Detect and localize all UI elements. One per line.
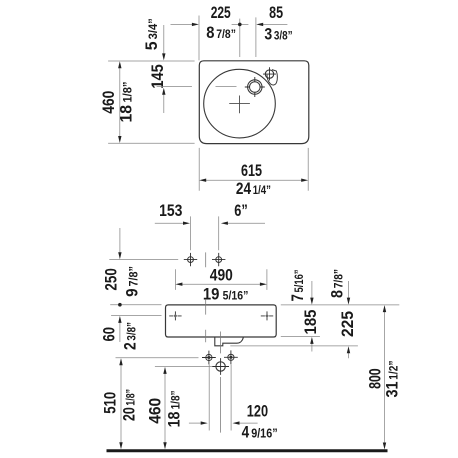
ext line anchors row left [111,315,161,317]
bolt left [206,354,212,360]
dim 153 ext lines [191,216,219,250]
dim 145 top arrow [163,25,165,54]
svg-text:75/16”: 75/16” [289,270,307,302]
dot 250/60 [118,303,122,307]
dim 145 bottom arrow [163,94,165,113]
mounting hole left [188,257,194,263]
dim 615 line [204,179,305,181]
svg-text:33/8”: 33/8” [264,26,292,44]
ext line holes row left [109,259,178,261]
dim 615 ext lines [199,148,308,191]
ext line left edge (dim 225) [198,16,200,61]
svg-text:510: 510 [101,392,119,414]
ext line bolts row left [116,357,199,359]
dim 460 line [119,66,121,139]
dim 225 bottom arrow right [348,352,350,358]
mounting hole right [216,257,222,263]
dim 120 right arrow [239,422,258,424]
bolt right [228,354,234,360]
slab outline front view [166,305,277,337]
basin outline top view [199,61,308,144]
dim 800 line [384,310,386,445]
dim 120 left arrow [189,422,202,424]
dim 490 ext lines [175,269,267,290]
svg-text:87/8”: 87/8” [206,24,236,42]
svg-text:87/8”: 87/8” [328,269,346,298]
ext line bowl center (dim 225/85) [239,19,241,57]
dim 460 ext lines [108,61,195,143]
dim 120 ext lines [209,365,231,431]
svg-text:85: 85 [269,4,283,22]
anchor right [261,311,273,320]
svg-text:53/4”: 53/4” [143,18,161,50]
svg-text:60: 60 [101,327,119,342]
svg-text:181/8”: 181/8” [118,82,136,123]
dim 510 line [120,364,122,445]
drain recess [215,337,244,346]
svg-text:241/4”: 241/4” [236,180,271,198]
svg-text:250: 250 [102,268,120,290]
floor line [107,449,388,452]
dim 6" right arrow [227,222,265,224]
svg-text:120: 120 [247,403,268,421]
dim 85 arrow [263,23,288,25]
ext line slab bottom right [281,336,320,338]
dim 250 arrow [119,228,121,253]
ext line drain bottom (225) [230,345,358,347]
svg-text:490: 490 [210,267,233,285]
ext line slab top left [110,304,161,306]
svg-text:185: 185 [302,310,320,335]
svg-text:153: 153 [159,202,182,220]
dim 225 arrow [171,23,193,25]
hole 2 [265,70,273,78]
svg-text:145: 145 [149,64,167,89]
svg-text:195/16”: 195/16” [203,285,249,303]
svg-text:49/16”: 49/16” [242,424,278,442]
dim 185 bottom arrow [311,343,313,352]
svg-text:225: 225 [211,4,231,22]
svg-text:311/2”: 311/2” [384,361,402,398]
ext line slab top right [281,304,400,306]
dim 460 line [164,372,166,445]
dim 225 stub and dot [232,23,249,25]
dim 225 top arrow right [348,281,350,299]
anchor left [169,311,181,320]
ext line drain row left [155,366,212,368]
svg-text:181/8”: 181/8” [166,390,184,427]
faucet hole U [248,80,262,94]
dim 153 left arrow [155,222,184,224]
svg-text:800: 800 [366,368,384,389]
tag shape [267,70,277,85]
ext line faucet center (dim 85) [255,17,257,57]
svg-text:201/8”: 201/8” [121,389,139,421]
drain centerline vertical [219,332,221,433]
dim 185 top arrow [311,281,313,299]
centerline bowl axis [205,252,207,342]
bowl center cross [229,96,250,114]
svg-text:460: 460 [147,398,165,424]
bowl circle [204,69,276,138]
svg-text:97/8”: 97/8” [124,266,142,297]
ext line faucet y [157,86,237,88]
svg-text:225: 225 [339,311,357,337]
dim 490 line [180,283,263,285]
dim 60 arrow [119,323,121,343]
svg-text:23/8”: 23/8” [122,322,140,350]
svg-text:460: 460 [100,91,118,114]
svg-text:6”: 6” [234,202,248,220]
drain circle [216,362,225,371]
svg-text:615: 615 [241,162,262,180]
